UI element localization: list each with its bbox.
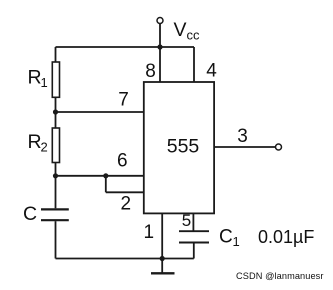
svg-text:C: C	[23, 203, 37, 225]
svg-text:1: 1	[233, 234, 240, 249]
wire pin 3 output	[214, 146, 275, 148]
wire C top lead	[55, 176, 57, 209]
label Vcc	[174, 19, 201, 43]
wire C bottom lead	[55, 221, 57, 258]
svg-text:7: 7	[118, 90, 129, 111]
wire pin 1	[161, 213, 163, 258]
svg-text:CSDN @lanmanuesr: CSDN @lanmanuesr	[236, 271, 324, 281]
label C1	[219, 227, 240, 250]
svg-text:V: V	[174, 19, 187, 41]
svg-text:R: R	[28, 131, 42, 153]
wire R1 bottom lead	[55, 97, 57, 112]
svg-text:8: 8	[145, 61, 156, 82]
wire pin 5	[192, 213, 194, 231]
node R2/C/pin6 junction	[53, 173, 58, 178]
node Vcc junction	[157, 44, 162, 49]
capacitor C1	[179, 231, 209, 242]
svg-text:555: 555	[167, 136, 200, 158]
ground	[151, 259, 175, 274]
wire R2 bottom lead	[55, 163, 57, 176]
svg-text:R: R	[28, 67, 42, 89]
terminal Vcc	[157, 18, 163, 24]
svg-text:6: 6	[117, 151, 128, 172]
svg-text:0.01µF: 0.01µF	[258, 227, 314, 247]
wire R1 top lead	[55, 47, 57, 62]
svg-text:1: 1	[144, 222, 155, 243]
wire C1 bottom lead	[193, 243, 195, 259]
svg-text:cc: cc	[187, 28, 201, 43]
wire pin 2 horizontal	[106, 191, 144, 193]
svg-text:C: C	[219, 227, 233, 248]
svg-text:2: 2	[41, 140, 48, 155]
node ground junction	[160, 256, 165, 261]
svg-text:3: 3	[237, 126, 248, 147]
wire Vcc stub	[159, 24, 161, 48]
IC U1 555 timer	[144, 82, 214, 213]
node pin2 branch junction	[103, 173, 108, 178]
label R1	[28, 67, 48, 91]
resistor R2	[52, 128, 59, 163]
wire pin 2 vertical	[105, 176, 107, 193]
wire pin 8	[159, 47, 161, 83]
svg-text:1: 1	[41, 75, 48, 90]
label R2	[28, 131, 48, 155]
capacitor C	[41, 209, 69, 220]
svg-text:4: 4	[206, 61, 217, 82]
svg-text:5: 5	[182, 211, 191, 230]
terminal output	[276, 144, 282, 150]
node R1/R2/pin7 junction	[53, 109, 58, 114]
wire bottom rail	[56, 258, 194, 260]
wire R2 top lead	[55, 112, 57, 128]
wire pin 6	[56, 175, 144, 177]
wire pin 7	[56, 111, 144, 113]
svg-text:2: 2	[121, 194, 132, 215]
resistor R1	[52, 62, 59, 97]
wire top rail	[56, 46, 195, 48]
wire pin 4	[193, 47, 195, 83]
